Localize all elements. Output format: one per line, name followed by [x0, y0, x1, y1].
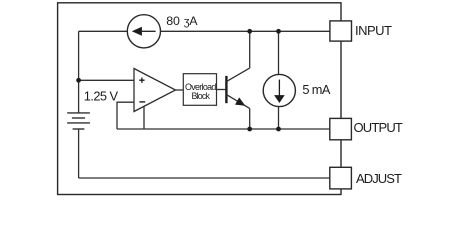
wire: battery bottom to adjust rail — [78, 129, 80, 178]
wire: output rail — [117, 128, 330, 130]
pin ADJUST — [330, 167, 352, 189]
battery: 1.25 V reference — [67, 113, 90, 129]
op-amp U1 — [134, 69, 176, 112]
current source I2 (5 mA) — [263, 74, 295, 106]
current source I1 (80 uA) — [127, 15, 160, 48]
svg-text:OUTPUT: OUTPUT — [354, 120, 403, 135]
wire: 5 mA source branch — [278, 31, 280, 129]
wire: op-amp output to overload block — [176, 89, 184, 91]
node: collector junction on top rail — [247, 29, 252, 34]
wire: emitter to output rail — [249, 108, 251, 129]
node: emitter junction on output rail — [247, 127, 252, 132]
wire: left vertical from top rail to battery — [78, 31, 80, 113]
overload block — [183, 74, 216, 106]
node: 5 mA branch on top rail — [276, 29, 281, 34]
wire: collector to top rail — [249, 31, 251, 68]
pin INPUT — [330, 21, 352, 41]
IC boundary — [58, 3, 341, 195]
wire: bottom rail to ADJUST pin — [79, 177, 330, 179]
transistor Q1 (NPN pass transistor) — [226, 68, 249, 108]
node: 5 mA branch on output rail — [276, 127, 281, 132]
svg-text:Block: Block — [191, 91, 210, 101]
wire: op-amp non-inverting input — [79, 79, 134, 81]
svg-text:80 ʒA: 80 ʒA — [166, 14, 198, 28]
svg-text:INPUT: INPUT — [355, 23, 392, 38]
svg-text:5 mA: 5 mA — [302, 82, 330, 97]
svg-text:ADJUST: ADJUST — [356, 171, 402, 186]
wire: op-amp negative supply to output rail — [143, 106, 145, 129]
pin OUTPUT — [330, 118, 352, 139]
wire: op-amp inverting input to output rail — [117, 102, 134, 129]
node: junction left wire / plus input — [76, 78, 81, 83]
svg-text:1.25 V: 1.25 V — [84, 88, 119, 103]
wire: overload block to transistor base — [217, 89, 226, 91]
wire: top rail (input) — [79, 30, 330, 32]
